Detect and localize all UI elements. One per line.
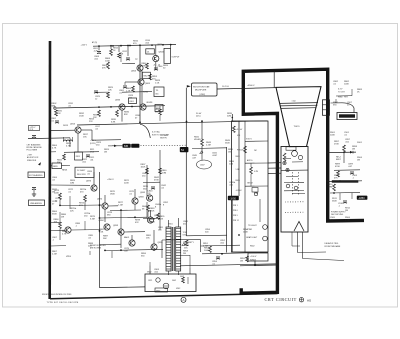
resistor R874 (84, 195, 87, 202)
wide resistor block (332, 180, 359, 183)
svg-text:22M: 22M (227, 115, 231, 117)
svg-text:180K: 180K (110, 193, 115, 195)
svg-text:6.3 V: 6.3 V (338, 89, 343, 91)
svg-text:3.3M: 3.3M (162, 172, 167, 174)
svg-text:6.3 V AC: 6.3 V AC (152, 131, 160, 134)
svg-text:DELAYED TRIG: DELAYED TRIG (325, 242, 339, 245)
wire bottom row (180, 264, 277, 266)
junction box +100V (248, 253, 268, 261)
capacitor C854 (216, 257, 220, 259)
svg-text:(DC): (DC) (196, 115, 201, 117)
transistor Q823 on bus (140, 104, 146, 110)
net badge test point (180, 147, 189, 152)
svg-text:PIN 6: PIN 6 (233, 210, 238, 212)
svg-text:CRT CIRCUIT: CRT CIRCUIT (265, 297, 297, 302)
svg-text:56K: 56K (184, 247, 188, 249)
wire net2 bottom (328, 180, 362, 183)
wire feed into panel (231, 114, 233, 121)
label box low voltage ref (29, 126, 40, 131)
svg-text:1W: 1W (61, 216, 64, 218)
svg-text:(V862): (V862) (200, 94, 206, 96)
wires socket panel to CRT base (268, 162, 281, 164)
svg-text:FOCUS: FOCUS (237, 150, 244, 152)
capacitor C846 (154, 68, 158, 70)
wire Q813 emitter to bias box (77, 133, 79, 152)
svg-text:(DCPL): (DCPL) (90, 143, 96, 145)
svg-text:REG V831: REG V831 (77, 174, 86, 176)
svg-text:845: 845 (124, 145, 129, 148)
svg-text:6AU5: 6AU5 (124, 236, 130, 239)
wire intensity feed (186, 234, 227, 237)
CRT envelope funnel (276, 87, 321, 147)
dotted net wire from blanking badge (141, 144, 187, 147)
transistor Q893 (118, 229, 124, 235)
wire emitter Q813 (81, 129, 92, 131)
svg-text:PIN 9: PIN 9 (233, 215, 238, 217)
svg-text:T5470: T5470 (294, 126, 301, 128)
svg-text:TYPE 547 OSCILLOSCOPE: TYPE 547 OSCILLOSCOPE (47, 302, 79, 304)
wire unblanking bus (77, 121, 268, 125)
svg-text:220K: 220K (124, 182, 129, 184)
CRT heater zigzag (283, 153, 286, 161)
transistor Q843 (153, 55, 159, 61)
bias network box (155, 105, 163, 112)
svg-text:RESISTOR VALUES: RESISTOR VALUES (90, 244, 106, 247)
svg-text:4.7M: 4.7M (66, 145, 71, 147)
capacitor C910 (343, 201, 347, 203)
terminal box heater winding (337, 113, 357, 120)
svg-text:PIN 1: PIN 1 (233, 205, 238, 207)
svg-text:FOLLOWER: FOLLOWER (27, 150, 38, 152)
svg-text:ARE IN OHMS: ARE IN OHMS (90, 247, 102, 250)
wire base Q813 (51, 129, 75, 131)
resistor R884 (59, 222, 62, 229)
svg-text:47K: 47K (79, 205, 83, 207)
wire right network 1 down (343, 152, 345, 163)
svg-text:120K: 120K (150, 210, 155, 212)
svg-text:DL: DL (147, 52, 149, 54)
net badge DC blanking (123, 144, 131, 148)
resistor R853 (149, 74, 152, 80)
svg-text:C821: C821 (148, 280, 152, 282)
wire CRT anode to shield (273, 71, 275, 87)
wire net2 row (334, 169, 360, 172)
resistor R851 (209, 246, 212, 253)
CRT neck and gun envelope (281, 147, 308, 233)
wires rectifier (149, 266, 151, 275)
wire net3 verticals (339, 193, 341, 200)
svg-text:Q843: Q843 (159, 52, 165, 54)
lower cluster extra wires (59, 200, 61, 206)
svg-text:R852: R852 (144, 76, 148, 78)
svg-text:560K: 560K (332, 200, 337, 202)
svg-text:Q895: Q895 (158, 242, 164, 244)
svg-text:5642: 5642 (180, 276, 184, 278)
svg-text:R860: R860 (338, 97, 342, 99)
svg-text:V859 HV: V859 HV (160, 138, 168, 140)
svg-text:2.7M: 2.7M (345, 219, 350, 221)
CRT socket terminal panel (232, 121, 269, 252)
svg-text:560K: 560K (225, 142, 230, 144)
pot arrow symbol (38, 162, 41, 165)
mid-left cluster extra wires (64, 151, 99, 154)
svg-text:V859: V859 (66, 256, 72, 258)
svg-text:+225 V: +225 V (90, 140, 97, 142)
wire delayed trig vertical (291, 232, 293, 246)
svg-text:4.7M: 4.7M (254, 171, 258, 173)
small box emitter network (75, 152, 83, 160)
HV cage extra wires (149, 262, 151, 266)
capacitor C853 (32, 188, 36, 190)
net badge grid bias (228, 196, 239, 200)
heater winding coil symbol (64, 140, 73, 142)
svg-text:FROM CATHODE: FROM CATHODE (27, 146, 43, 149)
HV rectifier enclosure (145, 274, 196, 292)
junction dots top rail (98, 45, 100, 47)
svg-text:R815: R815 (76, 156, 80, 158)
bias box V831 (75, 167, 94, 177)
wire socket panel bottom (254, 261, 256, 266)
wire external blanking input (28, 137, 70, 140)
svg-text:B831: B831 (53, 166, 57, 168)
rail tap components on left power bus (49, 100, 51, 102)
svg-text:10.2 kV: 10.2 kV (222, 86, 229, 88)
wire +125V bus (57, 106, 165, 108)
resistor R802 at rail (55, 110, 58, 116)
svg-text:39K: 39K (57, 162, 61, 164)
resistor R601 focus (244, 146, 247, 153)
resistor R835 (116, 110, 119, 117)
capacitor C850 (32, 136, 36, 138)
wire delayed trigger leads (297, 232, 299, 253)
transistor Q874 (102, 203, 108, 209)
svg-text:V842: V842 (176, 288, 180, 290)
input arrow to multiplier (187, 85, 191, 87)
CRT deflection plate bars (284, 181, 304, 183)
resistor R833 (98, 110, 101, 117)
transistor Q885 (129, 240, 135, 246)
svg-text:6.8K: 6.8K (111, 121, 116, 123)
svg-text:ADJUST FOR: ADJUST FOR (27, 156, 39, 159)
HV transformer T801 primary (166, 227, 171, 271)
wire emitter chain (141, 71, 143, 79)
svg-text:EXT BLANKING: EXT BLANKING (29, 174, 43, 177)
svg-text:VOLTS: VOLTS (246, 139, 252, 141)
wires transformer leads (168, 271, 170, 275)
svg-text:GRAT LIGHT: GRAT LIGHT (246, 236, 258, 239)
junction dots on unblanking bus (139, 121, 141, 123)
svg-text:D813: D813 (63, 125, 69, 127)
wire Q873 collector (93, 172, 95, 185)
svg-text:470K: 470K (154, 179, 159, 181)
svg-text:A: A (182, 298, 184, 302)
CRT base key chevron (294, 222, 304, 232)
svg-text:GEOM: GEOM (247, 183, 253, 185)
capacitor C822 (86, 155, 90, 157)
svg-text:Q863: Q863 (145, 83, 151, 85)
wire mid column C (238, 121, 240, 196)
svg-text:FROM TIME BASE: FROM TIME BASE (325, 245, 342, 248)
lamp B602 scale light (263, 236, 268, 241)
CRT gun grid cup divider (281, 169, 308, 171)
svg-text:CRT BLANKING: CRT BLANKING (27, 143, 41, 146)
transistor Q863 (138, 79, 144, 85)
svg-text:Q874: Q874 (97, 199, 103, 201)
CRT aquadag connector small box (286, 147, 296, 150)
svg-text:V822: V822 (147, 272, 151, 274)
svg-text:+225 V: +225 V (81, 44, 88, 46)
pot intensity (185, 240, 188, 246)
capacitor C843 (151, 187, 155, 189)
svg-text:82K: 82K (124, 114, 128, 116)
voltage multiplier V862 (192, 83, 218, 96)
CRT shield outline (thick) (243, 69, 364, 221)
svg-text:680K: 680K (150, 221, 155, 223)
transistor Q884 (104, 224, 110, 230)
HV transformer T801 core (171, 227, 173, 271)
svg-text:OUTPUT: OUTPUT (172, 57, 181, 59)
wires HV rect top row (162, 238, 201, 241)
svg-text:Q883: Q883 (139, 197, 145, 199)
terminal panel lower wires (231, 196, 233, 252)
svg-text:10M: 10M (70, 182, 74, 184)
CRT base pins (dashed) (292, 172, 294, 196)
wire heater box lead (335, 99, 337, 103)
resistor R910 (333, 184, 336, 191)
resistor R840 (159, 168, 162, 174)
svg-text:2M: 2M (183, 253, 186, 255)
transistor Q894 (147, 217, 153, 223)
resistor R846 (146, 63, 149, 69)
svg-text:HTR: HTR (344, 97, 348, 99)
junction dots top rail 2 (112, 45, 114, 47)
svg-text:UNBLANKING: UNBLANKING (30, 202, 42, 205)
resistor R814 (118, 53, 121, 58)
transistor Q886 (65, 227, 71, 233)
divider wire focus column (244, 121, 246, 252)
svg-text:+3.5 kV: +3.5 kV (236, 129, 243, 131)
balloon note gas type (197, 160, 212, 169)
svg-text:801: 801 (156, 94, 159, 96)
power bus border (thick left vertical) (48, 41, 51, 299)
diode arrows by badge (114, 145, 117, 147)
svg-text:Q833: Q833 (115, 100, 121, 102)
CRT socket dotted leads (285, 201, 305, 203)
wire collector Q843 (155, 45, 157, 55)
CRT anode electrode circles (286, 184, 290, 188)
transistor Q883 (132, 198, 138, 204)
svg-text:100K: 100K (243, 231, 248, 233)
thermal relay box on bus (129, 98, 137, 104)
wire HV adjust row (192, 147, 227, 150)
svg-text:NE23: NE23 (62, 170, 68, 172)
time delay relay box (154, 87, 164, 97)
capacitor C802 at rail (55, 121, 59, 123)
svg-text:K801: K801 (130, 101, 134, 103)
svg-text:Q893: Q893 (113, 225, 119, 227)
svg-text:1M: 1M (52, 191, 55, 193)
junction dots lower cluster (99, 204, 101, 206)
hook wire to heater box (342, 103, 354, 113)
svg-text:Q813: Q813 (70, 124, 76, 126)
svg-text:100K: 100K (330, 134, 335, 136)
ground reference node A on border (181, 297, 186, 302)
wire badge feed (112, 145, 122, 147)
svg-text:-1850: -1850 (358, 197, 365, 200)
junction dots lower (221, 253, 223, 255)
svg-text:Q884: Q884 (99, 220, 105, 222)
pot wiper arrow (200, 151, 203, 154)
svg-text:.001: .001 (90, 160, 93, 162)
resistor R896 right (343, 145, 346, 152)
vertical drop x121 (120, 52, 122, 62)
transistor Q833 on bus (119, 104, 125, 110)
resistor R822 (63, 154, 66, 160)
svg-text:DC SHIFT: DC SHIFT (77, 170, 86, 172)
svg-text:100K: 100K (344, 83, 349, 85)
svg-text:+100 V: +100 V (250, 256, 257, 258)
wire +225V top rail (93, 45, 176, 47)
resistor R602 astig (250, 167, 253, 174)
wire Q833 to unblanking bus (121, 110, 123, 122)
capacitor C808 (97, 52, 101, 54)
svg-text:47K: 47K (102, 67, 106, 69)
wire mid column A (201, 121, 203, 139)
wires heater to right (331, 102, 343, 104)
svg-text:470K: 470K (335, 166, 340, 168)
CRT gun plates (284, 157, 291, 159)
gas diode box B831 (52, 163, 62, 169)
panel rung wires (245, 140, 268, 142)
rectifier V822 symbols (163, 283, 169, 289)
junction dots on bus (98, 106, 100, 108)
svg-text:V832: V832 (156, 290, 160, 292)
svg-text:-1850: -1850 (230, 197, 237, 200)
svg-text:27K: 27K (89, 121, 93, 123)
svg-text:+350 V: +350 V (107, 179, 114, 181)
svg-text:MULTIPLIER: MULTIPLIER (195, 90, 207, 92)
svg-text:4.7K: 4.7K (52, 147, 57, 149)
transistor Q813 (75, 127, 81, 133)
capacitor C899 (350, 172, 354, 174)
svg-text:22K: 22K (70, 210, 74, 212)
svg-text:5642: 5642 (172, 280, 176, 282)
svg-text:4.7K: 4.7K (62, 233, 67, 235)
svg-text:100K: 100K (141, 166, 146, 168)
diode D897 (350, 151, 353, 154)
resistor R808 (110, 46, 112, 49)
resistor R899b (337, 171, 340, 177)
svg-text:FROM PLUG-IN INTERLOCK PINS: FROM PLUG-IN INTERLOCK PINS (42, 294, 72, 296)
wires lower cluster horizontals (60, 204, 102, 207)
resistor R873 (59, 193, 62, 200)
svg-text:15K: 15K (146, 237, 150, 239)
HV transformer T801 secondary (176, 227, 181, 271)
top cluster extra wires (122, 91, 152, 94)
svg-text:PIN 12: PIN 12 (233, 220, 239, 222)
svg-text:100K: 100K (204, 250, 209, 252)
test point TP862 (283, 161, 286, 164)
svg-text:Q845: Q845 (140, 192, 146, 194)
svg-text:R602: R602 (250, 246, 255, 248)
svg-text:68K: 68K (52, 105, 56, 107)
transistor Q845 oscillator (147, 195, 153, 201)
svg-text:47K: 47K (135, 222, 139, 224)
svg-text:1M: 1M (352, 148, 355, 150)
wire HV cage left border (99, 172, 101, 288)
svg-text:ASTIG: ASTIG (247, 159, 253, 162)
wires lower cluster verticals (104, 195, 106, 203)
extra wires lower-left lattice (59, 212, 61, 222)
svg-text:TO CRT: TO CRT (338, 91, 346, 93)
output stage coupling box (164, 48, 171, 63)
svg-text:INTENSITY: INTENSITY (183, 242, 194, 244)
resistor R603 geom (232, 126, 235, 133)
svg-text:+8.5: +8.5 (153, 65, 156, 67)
svg-text:6DW8: 6DW8 (147, 102, 154, 104)
svg-text:1M: 1M (357, 159, 360, 161)
bias box Q853 stage (142, 72, 150, 78)
svg-text:1.8M: 1.8M (328, 186, 333, 188)
wire multiplier output to CRT anode (217, 88, 277, 89)
svg-text:3.3M: 3.3M (90, 218, 95, 220)
resistor R863 (132, 86, 135, 92)
svg-text:1M: 1M (240, 260, 243, 262)
wire +350 feed right (329, 151, 356, 154)
transistor Q853 (137, 65, 143, 71)
svg-text:ELECTRON TUBE: ELECTRON TUBE (193, 86, 210, 88)
wire drop x160 (159, 106, 161, 109)
resistor R838 (159, 109, 162, 115)
label box unblanking (29, 200, 45, 206)
svg-text:15K: 15K (83, 136, 87, 138)
panel junction small box (252, 188, 258, 193)
wire y92 link (96, 91, 108, 93)
resistor R841 HV adjust (201, 139, 204, 146)
wire drop into output box (170, 45, 172, 49)
schematic bottom border (50, 294, 278, 299)
wire net3 row (330, 191, 360, 194)
HV oscillator left column wires (146, 165, 148, 196)
lamp B601 graticule light (263, 225, 268, 230)
rectifier sub box (155, 288, 168, 292)
wire Q886 links (51, 229, 65, 231)
capacitor C861 (123, 86, 127, 88)
CRT gun cathode circle (292, 151, 298, 157)
svg-text:1M: 1M (104, 151, 107, 153)
svg-text:47K: 47K (334, 177, 338, 179)
test point TP863 (286, 168, 289, 171)
svg-text:D901: D901 (357, 142, 363, 144)
CRT heater connector plug (323, 100, 330, 116)
svg-text:+8500 V: +8500 V (247, 85, 255, 87)
svg-text:TR LIGHT: TR LIGHT (248, 225, 257, 227)
resistor R883 (147, 205, 150, 212)
extra cap C819 (94, 91, 98, 93)
input pin from thick rail (54, 107, 56, 109)
rectifier diode stack (182, 277, 185, 283)
wire multiplier input drop (185, 88, 187, 236)
heater wires right (336, 95, 352, 97)
delay line termination box (146, 49, 155, 54)
svg-text:.0047: .0047 (212, 155, 218, 157)
extra junction dots lattice (153, 249, 155, 251)
svg-text:56K: 56K (103, 238, 107, 240)
label box external crt (28, 172, 45, 178)
svg-text:HV ADJ: HV ADJ (194, 138, 201, 141)
svg-text:1.5K: 1.5K (155, 82, 160, 84)
svg-text:270K: 270K (334, 143, 339, 145)
